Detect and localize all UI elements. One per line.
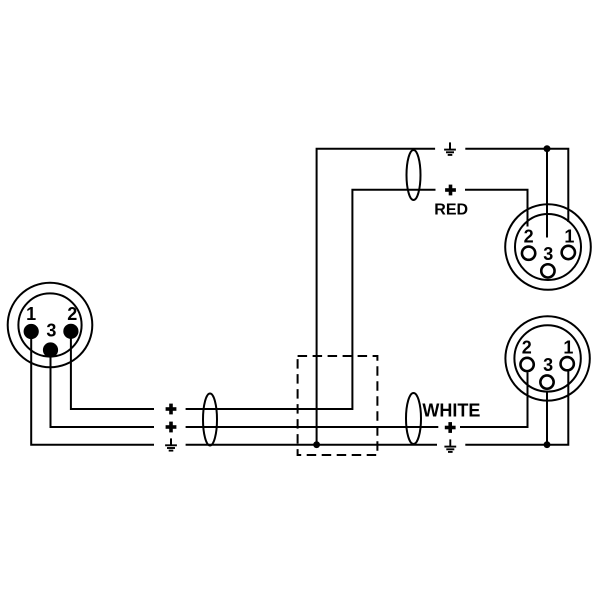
svg-text:3: 3 (543, 355, 553, 375)
cable sheath ellipse, left cable (203, 394, 217, 446)
plus sign on left hot line (166, 404, 177, 415)
plus sign on RED bus (445, 185, 456, 196)
svg-text:2: 2 (67, 304, 77, 324)
cable sheath ellipse, top cable (407, 150, 421, 200)
wire: J1 pin3 down to white line, left segment (51, 355, 155, 427)
svg-text:WHITE: WHITE (422, 401, 480, 421)
ground symbol on top bus (444, 142, 456, 155)
wire: ground bus stub up to J3 pin3 (546, 391, 548, 445)
svg-text:RED: RED (434, 202, 468, 219)
svg-text:2: 2 (522, 338, 532, 358)
plus sign on WHITE bus (445, 422, 456, 433)
svg-text:3: 3 (543, 244, 553, 264)
J3 pin 1 (561, 357, 574, 370)
wire: white bus middle segment (186, 426, 439, 428)
J2 pin 3 (541, 264, 554, 277)
svg-text:1: 1 (563, 337, 573, 357)
wire: ground bus middle segment (186, 444, 437, 446)
J1 inner ring (18, 293, 81, 356)
J1 pin 1 (solder cup, filled) (24, 324, 39, 339)
ground symbol on left ground bus (165, 438, 177, 450)
J3 inner ring (514, 325, 580, 391)
connector J2 (XLR female, top right) outer shell (505, 204, 591, 290)
J2 pin 2 (522, 247, 535, 260)
plus sign on left white line (166, 422, 177, 433)
J3 pin 3 (540, 375, 553, 388)
junction dot: top bus / J2 pin3 stub (544, 145, 551, 152)
wire: J1 pin1 down to ground bus, left segment (31, 336, 154, 445)
wire: white bus right segment down to J3 pin2 (460, 373, 528, 428)
svg-text:1: 1 (564, 226, 574, 246)
J1 pin 3 (solder cup, filled) (43, 342, 58, 357)
wire: J1 pin2 down to red line, left segment (71, 336, 154, 409)
connector J1 (XLR male, left) outer shell (8, 283, 93, 368)
J2 inner ring (515, 214, 581, 280)
cable sheath ellipse, right cable (406, 393, 421, 444)
wire: top bus corner down to J2 pin1 (547, 149, 568, 222)
connector J3 (XLR female, bottom right) outer shell (505, 316, 589, 400)
J1 pin 2 (solder cup, filled) (63, 324, 78, 339)
wire: red line right segment rising to RED bus (186, 190, 436, 409)
wire: top bus stub down to J2 pin3 (546, 149, 548, 238)
J3 pin 2 (520, 358, 533, 371)
junction dot: shield riser / ground bus (313, 441, 320, 448)
svg-text:2: 2 (524, 226, 534, 246)
wire: top ground bus right segment (465, 148, 547, 150)
wire: shield riser up through junction box to top bus (317, 149, 436, 445)
dashed junction box (298, 356, 378, 455)
wire: ground bus right segment up to J3 pin1 (465, 372, 568, 445)
ground symbol on right ground bus (444, 439, 456, 452)
J2 pin 1 (562, 246, 575, 259)
junction dot: ground bus / J3 pin3 stub (544, 441, 551, 448)
svg-text:3: 3 (46, 321, 56, 341)
svg-text:1: 1 (26, 304, 36, 324)
wire: RED bus right segment down to J2 pin2 (465, 190, 528, 227)
